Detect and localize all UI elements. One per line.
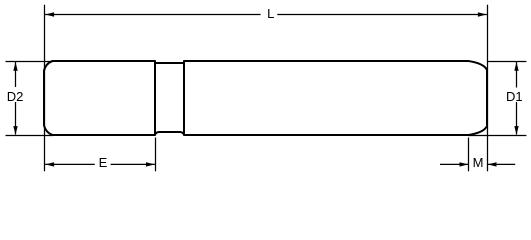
svg-text:D1: D1: [506, 89, 523, 104]
svg-text:M: M: [473, 155, 484, 170]
svg-text:E: E: [99, 155, 108, 170]
svg-text:D2: D2: [7, 89, 24, 104]
svg-text:L: L: [267, 6, 274, 21]
